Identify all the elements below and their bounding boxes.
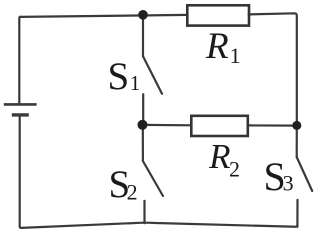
switch S1 [143, 15, 162, 125]
resistor R1 [187, 5, 249, 25]
wire left upper (top-left corner down to battery) [19, 17, 20, 104]
svg-text:1: 1 [230, 43, 241, 68]
wire top (left corner to resistor R1) [20, 15, 188, 17]
battery (cell) [4, 104, 37, 115]
svg-text:2: 2 [229, 156, 240, 181]
svg-text:3: 3 [283, 171, 294, 196]
wire (R2 right to node B) [248, 124, 297, 126]
wire left lower (battery down to bottom-left corner) [19, 115, 21, 227]
switch S3 [297, 125, 313, 227]
svg-text:R: R [208, 137, 230, 176]
svg-text:1: 1 [130, 71, 141, 95]
svg-text:2: 2 [127, 180, 138, 205]
wire middle (node A to resistor R2) [143, 124, 192, 127]
resistor R2 [191, 116, 248, 136]
node B (middle-right junction) [292, 121, 301, 130]
battery long plate (positive) [4, 103, 37, 106]
svg-text:S: S [108, 55, 130, 98]
node top junction [138, 10, 148, 20]
switch S2 [143, 125, 163, 223]
battery short plate (negative) [12, 113, 29, 116]
node A (middle-left junction) [138, 120, 148, 130]
wire (R1 right to top-right corner, down right side to node B) [249, 13, 297, 125]
svg-text:R: R [205, 26, 229, 67]
wire bottom (bottom-left corner to bottom-right corner) [20, 223, 298, 228]
